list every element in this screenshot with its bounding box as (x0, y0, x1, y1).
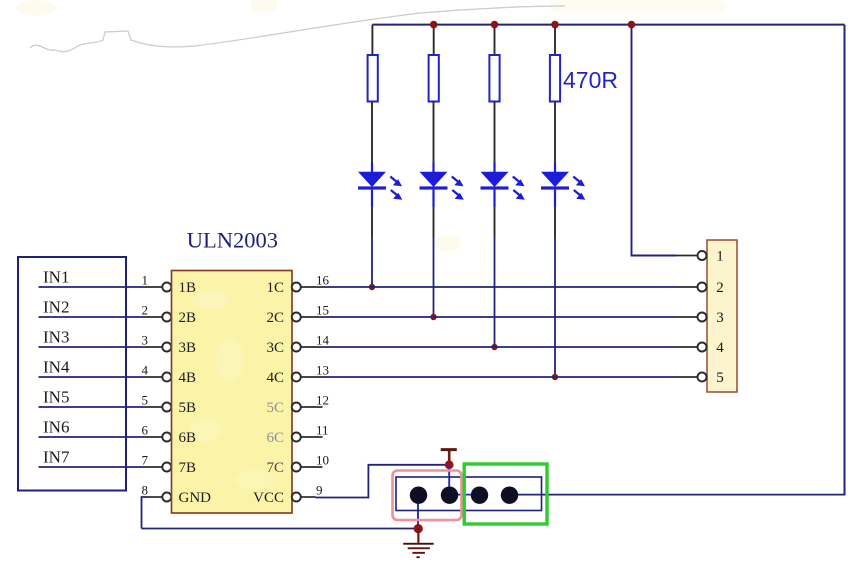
scan smudges (decorative) (16, 0, 725, 251)
wire D1 to node (navy) (371, 237, 373, 287)
svg-text:5: 5 (716, 370, 724, 386)
svg-text:4C: 4C (266, 370, 284, 386)
pin circle 5C (292, 403, 301, 412)
svg-text:15: 15 (316, 302, 329, 317)
svg-text:IN7: IN7 (43, 448, 70, 467)
junction dot column4 (552, 374, 558, 380)
junction dot column3 (491, 344, 497, 350)
wire drop to connector pin 1 (632, 25, 677, 256)
pin circle 3B (162, 343, 171, 352)
pin circle 1B (162, 283, 171, 292)
wire holder pin1 down (417, 495, 419, 528)
svg-text:13: 13 (316, 362, 329, 377)
wire IN3 (39, 346, 145, 348)
svg-text:2B: 2B (179, 310, 197, 326)
pin circle 7B (162, 463, 171, 472)
connector pin 1 (676, 249, 724, 265)
svg-text:14: 14 (316, 332, 330, 347)
connector J1 body (707, 240, 737, 392)
wire R1 to D1 (371, 102, 373, 163)
wire GND rail bottom (142, 528, 419, 530)
connector pin 2 (676, 280, 724, 296)
wire IN4 (39, 376, 145, 378)
wire IN2 (39, 316, 145, 318)
wire VCC top rail (372, 24, 844, 26)
pin circle 4B (162, 373, 171, 382)
resistor R4 (550, 55, 560, 102)
svg-text:IN5: IN5 (43, 388, 69, 407)
wire 3C to connector pin4 (323, 346, 677, 348)
holder contact 4 (501, 487, 518, 504)
svg-text:16: 16 (316, 272, 330, 287)
wire D3 down (black) (494, 207, 496, 238)
wire IN7 (39, 466, 145, 468)
wire holder to right rail (450, 494, 480, 496)
junction dot rail R2 (430, 21, 438, 29)
svg-text:1B: 1B (179, 280, 197, 296)
connector pin 3 (676, 310, 724, 326)
stub pin 11 (6C) (301, 436, 323, 438)
svg-text:9: 9 (316, 482, 323, 497)
battery holder box (396, 477, 542, 511)
holder contact 3 (471, 487, 488, 504)
pin circle 2C (292, 313, 301, 322)
wire rail to R4 (554, 25, 556, 55)
LED D1 (358, 163, 402, 207)
wire 2C to connector pin3 (323, 316, 677, 318)
svg-text:10: 10 (316, 452, 329, 467)
svg-text:470R: 470R (563, 67, 618, 93)
wire VCC pin 9 (301, 496, 316, 498)
wire 4C to connector pin5 (323, 376, 677, 378)
pin circle 1C (292, 283, 301, 292)
green highlight box (464, 464, 547, 524)
LED D2 (420, 163, 464, 207)
wire D4 down (black) (554, 207, 556, 238)
svg-text:11: 11 (316, 422, 329, 437)
power bar symbol (441, 450, 457, 465)
wire 1C to connector pin2 (323, 286, 677, 288)
svg-text:7C: 7C (266, 460, 284, 476)
resistor R1 (368, 55, 378, 102)
svg-text:1C: 1C (266, 280, 284, 296)
pin circle 6B (162, 433, 171, 442)
wire GND pin 8 (148, 496, 162, 498)
svg-text:8: 8 (142, 482, 149, 497)
stub pin 10 (7C) (301, 466, 323, 468)
wire IN5 (39, 406, 145, 408)
svg-text:IN4: IN4 (43, 358, 70, 377)
wire D1 down (black) (371, 207, 373, 238)
junction dot rail R4 (551, 21, 559, 29)
wire D3 to node (navy) (494, 237, 496, 347)
svg-text:3: 3 (716, 310, 724, 326)
junction dot rail R3 (491, 21, 499, 29)
junction dot column1 (369, 284, 375, 290)
svg-text:3C: 3C (266, 340, 284, 356)
wire VCC down to holder (448, 465, 450, 495)
wire D4 to node (navy) (554, 237, 556, 377)
wire IN6 (39, 436, 145, 438)
svg-text:ULN2003: ULN2003 (187, 228, 278, 253)
svg-text:7: 7 (142, 452, 149, 467)
junction dot rail drop (628, 21, 636, 29)
wire rail to R2 (433, 25, 435, 55)
svg-text:IN3: IN3 (43, 328, 69, 347)
pin circle GND (162, 493, 171, 502)
svg-text:GND: GND (179, 490, 212, 506)
svg-text:6: 6 (142, 422, 149, 437)
pin circle 5B (162, 403, 171, 412)
holder contact 2 (441, 487, 458, 504)
wire R3 to D3 (494, 102, 496, 163)
junction dot VCC (445, 460, 454, 469)
junction dot GND (414, 524, 423, 533)
pin circle 2B (162, 313, 171, 322)
pin circle 7C (292, 463, 301, 472)
pin circle 3C (292, 343, 301, 352)
wire R4 to D4 (554, 102, 556, 163)
stub pin 12 (5C) (301, 406, 323, 408)
svg-text:4B: 4B (179, 370, 197, 386)
svg-text:7B: 7B (179, 460, 197, 476)
svg-text:2: 2 (142, 302, 149, 317)
wire D2 to node (navy) (433, 237, 435, 317)
connector pin 4 (676, 340, 724, 356)
wire rail to R3 (494, 25, 496, 55)
pin circle VCC (292, 493, 301, 502)
LED D3 (481, 163, 525, 207)
svg-text:6B: 6B (179, 430, 197, 446)
svg-text:2: 2 (716, 280, 724, 296)
junction dot column2 (430, 314, 436, 320)
svg-text:1: 1 (716, 249, 724, 265)
svg-text:5B: 5B (179, 400, 197, 416)
resistor R2 (429, 55, 439, 102)
svg-text:1: 1 (142, 272, 149, 287)
input box (18, 257, 126, 491)
wire R2 to D2 (433, 102, 435, 163)
resistor R3 (489, 55, 499, 102)
wire right-side VCC rail (844, 25, 846, 496)
svg-text:5: 5 (142, 392, 149, 407)
svg-text:IN6: IN6 (43, 418, 69, 437)
wire D2 down (black) (433, 207, 435, 238)
pin circle 4C (292, 373, 301, 382)
svg-text:12: 12 (316, 392, 329, 407)
pink highlight box (393, 471, 462, 521)
svg-text:4: 4 (716, 340, 724, 356)
svg-text:VCC: VCC (253, 490, 284, 506)
wire IN1 (39, 286, 145, 288)
svg-text:2C: 2C (266, 310, 284, 326)
LED D4 (541, 163, 585, 207)
svg-text:6C: 6C (266, 430, 284, 446)
holder contact 1 (410, 487, 427, 504)
connector pin 5 (676, 370, 724, 386)
svg-text:3: 3 (142, 332, 149, 347)
pin circle 6C (292, 433, 301, 442)
svg-text:4: 4 (142, 362, 149, 377)
svg-text:IN2: IN2 (43, 298, 69, 317)
svg-text:IN1: IN1 (43, 268, 69, 287)
ground symbol (403, 529, 434, 559)
wire rail to R1 (371, 25, 373, 55)
svg-text:3B: 3B (179, 340, 197, 356)
IC U1 ULN2003 body (172, 271, 293, 514)
svg-text:5C: 5C (266, 400, 284, 416)
